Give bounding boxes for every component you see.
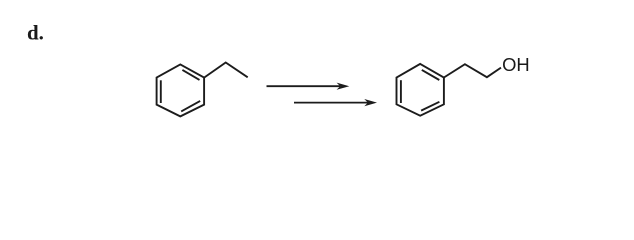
ring 2 double bond left xyxy=(400,80,402,103)
ring 1 double bond left xyxy=(160,80,162,103)
ring 1 double bond bottom-right xyxy=(181,101,200,112)
reaction arrow 2 xyxy=(294,99,377,106)
svg-text:OH: OH xyxy=(502,54,530,75)
svg-text:d.: d. xyxy=(27,21,44,45)
benzene ring 1 (ethylbenzene) xyxy=(157,63,248,117)
CH2CH2-OH chain xyxy=(444,64,501,77)
ethyl chain xyxy=(204,63,248,78)
ring 2 double bond top-right xyxy=(422,70,440,80)
ring 2 double bond bottom-right xyxy=(421,102,439,111)
benzene ring 2 (2-phenylethanol) xyxy=(397,64,502,116)
reaction arrow 1 xyxy=(267,83,350,90)
ring 1 double bond top-right xyxy=(182,70,199,80)
